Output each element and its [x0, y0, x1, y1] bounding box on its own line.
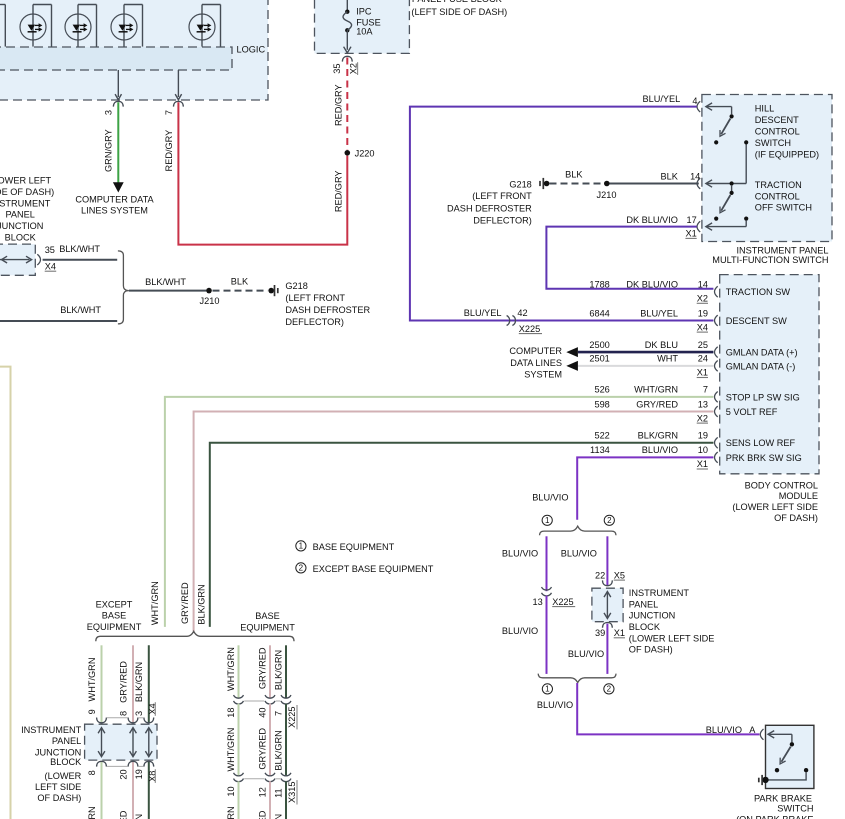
svg-text:39: 39	[595, 628, 605, 638]
svg-text:J220: J220	[355, 148, 375, 158]
svg-text:2500: 2500	[589, 340, 609, 350]
svg-text:X1: X1	[697, 459, 708, 469]
svg-text:DEFLECTOR): DEFLECTOR)	[285, 317, 344, 327]
svg-text:(LEFT SIDE OF DASH): (LEFT SIDE OF DASH)	[411, 7, 507, 17]
svg-text:WHT/GRN: WHT/GRN	[226, 647, 236, 691]
svg-text:INSTRUMENT: INSTRUMENT	[0, 198, 51, 208]
svg-text:8: 8	[118, 711, 128, 716]
svg-text:14: 14	[690, 171, 700, 181]
svg-text:(LOWER: (LOWER	[45, 771, 82, 781]
svg-text:TRACTION SW: TRACTION SW	[726, 287, 791, 297]
svg-text:GRY/RED: GRY/RED	[636, 399, 678, 409]
svg-text:WHT/GRN: WHT/GRN	[150, 581, 160, 625]
svg-text:13: 13	[698, 399, 708, 409]
svg-text:X2: X2	[697, 413, 708, 423]
svg-text:G218: G218	[285, 281, 307, 291]
svg-text:PANEL: PANEL	[5, 210, 34, 220]
svg-text:GRY/RED: GRY/RED	[118, 810, 128, 819]
svg-text:4: 4	[692, 96, 697, 106]
svg-text:12: 12	[258, 787, 268, 797]
svg-text:HILL: HILL	[755, 104, 774, 114]
svg-text:BLK/WHT: BLK/WHT	[59, 244, 100, 254]
svg-text:(LOWER LEFT: (LOWER LEFT	[0, 176, 51, 186]
svg-text:(ON PARK BRAKE: (ON PARK BRAKE	[736, 814, 813, 819]
svg-text:1: 1	[299, 542, 304, 551]
svg-text:BLU/VIO: BLU/VIO	[706, 725, 742, 735]
svg-text:BLOCK: BLOCK	[5, 233, 37, 243]
svg-text:40: 40	[258, 707, 268, 717]
svg-text:PANEL FUSE BLOCK: PANEL FUSE BLOCK	[412, 0, 503, 4]
svg-text:MODULE: MODULE	[779, 491, 818, 501]
svg-text:X8: X8	[148, 771, 158, 782]
svg-text:WHT/GRN: WHT/GRN	[87, 806, 97, 819]
svg-text:1: 1	[545, 685, 550, 694]
svg-text:TRACTION: TRACTION	[755, 180, 802, 190]
svg-text:BLK: BLK	[565, 170, 583, 180]
svg-text:OF DASH): OF DASH)	[629, 645, 673, 655]
svg-text:BLOCK: BLOCK	[629, 622, 661, 632]
svg-text:PANEL: PANEL	[52, 736, 81, 746]
svg-text:BLK: BLK	[661, 171, 679, 181]
svg-text:BASE: BASE	[255, 611, 280, 621]
svg-text:DESCENT SW: DESCENT SW	[726, 316, 787, 326]
svg-text:24: 24	[698, 354, 708, 364]
svg-text:GRY/RED: GRY/RED	[258, 810, 268, 819]
svg-text:7: 7	[273, 711, 283, 716]
svg-text:2: 2	[607, 516, 612, 525]
svg-text:JUNCTION: JUNCTION	[0, 221, 43, 231]
svg-text:SYSTEM: SYSTEM	[524, 369, 562, 379]
svg-text:BLU/YEL: BLU/YEL	[640, 308, 678, 318]
svg-text:EXCEPT: EXCEPT	[96, 599, 133, 609]
svg-text:GRY/RED: GRY/RED	[118, 661, 128, 703]
svg-text:EXCEPT BASE EQUIPMENT: EXCEPT BASE EQUIPMENT	[313, 564, 434, 574]
svg-text:X1: X1	[697, 368, 708, 378]
svg-text:SIDE OF DASH): SIDE OF DASH)	[0, 187, 54, 197]
svg-text:5 VOLT REF: 5 VOLT REF	[726, 407, 778, 417]
svg-text:BLU/VIO: BLU/VIO	[502, 626, 538, 636]
svg-text:SWITCH: SWITCH	[777, 803, 813, 813]
svg-text:GRN/GRY: GRN/GRY	[104, 129, 114, 172]
svg-text:11: 11	[273, 788, 283, 798]
svg-text:OF DASH): OF DASH)	[37, 793, 81, 803]
svg-text:BLU/VIO: BLU/VIO	[568, 649, 604, 659]
svg-text:X225: X225	[287, 706, 297, 727]
svg-text:X4: X4	[45, 261, 56, 271]
svg-text:BLK/GRN: BLK/GRN	[638, 431, 678, 441]
svg-text:2501: 2501	[589, 354, 609, 364]
svg-text:9: 9	[87, 709, 97, 714]
svg-text:(LOWER LEFT SIDE: (LOWER LEFT SIDE	[732, 502, 818, 512]
svg-text:19: 19	[698, 431, 708, 441]
svg-text:WHT: WHT	[657, 354, 678, 364]
svg-text:PANEL: PANEL	[629, 599, 658, 609]
svg-text:42: 42	[517, 308, 527, 318]
svg-text:JUNCTION: JUNCTION	[35, 747, 81, 757]
svg-text:X2: X2	[348, 63, 358, 74]
svg-text:CONTROL: CONTROL	[755, 191, 800, 201]
svg-text:BASE EQUIPMENT: BASE EQUIPMENT	[313, 542, 395, 552]
svg-text:14: 14	[698, 280, 708, 290]
svg-text:(LOWER LEFT SIDE: (LOWER LEFT SIDE	[629, 633, 715, 643]
svg-text:DASH DEFROSTER: DASH DEFROSTER	[447, 203, 532, 213]
svg-text:BLOCK: BLOCK	[50, 757, 82, 767]
svg-text:BLU/VIO: BLU/VIO	[502, 548, 538, 558]
svg-text:INSTRUMENT: INSTRUMENT	[629, 588, 690, 598]
svg-text:BASE: BASE	[102, 611, 127, 621]
svg-text:1134: 1134	[590, 445, 610, 455]
svg-text:X1: X1	[685, 229, 696, 239]
svg-text:(LEFT FRONT: (LEFT FRONT	[285, 293, 345, 303]
svg-text:X4: X4	[148, 703, 158, 714]
svg-text:X2: X2	[697, 294, 708, 304]
svg-text:35: 35	[332, 63, 342, 73]
svg-text:13: 13	[532, 597, 542, 607]
svg-text:J210: J210	[200, 296, 220, 306]
svg-text:10A: 10A	[356, 27, 373, 37]
svg-text:INSTRUMENT: INSTRUMENT	[21, 725, 82, 735]
svg-text:X5: X5	[614, 570, 625, 580]
svg-text:EQUIPMENT: EQUIPMENT	[240, 622, 295, 632]
svg-text:598: 598	[594, 399, 609, 409]
svg-text:X225: X225	[519, 324, 540, 334]
svg-text:7: 7	[164, 110, 174, 115]
svg-text:7: 7	[703, 385, 708, 395]
svg-text:BLK/GRN: BLK/GRN	[273, 650, 283, 690]
svg-text:BLK/GRN: BLK/GRN	[273, 814, 283, 819]
svg-text:WHT/GRN: WHT/GRN	[87, 658, 97, 702]
svg-text:35: 35	[45, 245, 55, 255]
svg-text:X1: X1	[614, 628, 625, 638]
svg-text:BLK/GRN: BLK/GRN	[134, 814, 144, 819]
svg-text:3: 3	[104, 110, 114, 115]
svg-text:IPC: IPC	[356, 7, 372, 17]
svg-text:RED/GRY: RED/GRY	[334, 84, 344, 126]
svg-text:SWITCH: SWITCH	[755, 138, 791, 148]
svg-text:BLU/YEL: BLU/YEL	[464, 308, 502, 318]
svg-text:DESCENT: DESCENT	[755, 115, 799, 125]
svg-text:X225: X225	[552, 597, 573, 607]
svg-text:OFF SWITCH: OFF SWITCH	[755, 203, 812, 213]
svg-text:BLK/GRN: BLK/GRN	[134, 662, 144, 702]
svg-text:J210: J210	[597, 190, 617, 200]
svg-text:RED/GRY: RED/GRY	[334, 170, 344, 212]
svg-text:CONTROL: CONTROL	[755, 127, 800, 137]
svg-text:WHT/GRN: WHT/GRN	[226, 806, 236, 819]
svg-text:LINES SYSTEM: LINES SYSTEM	[81, 206, 148, 216]
svg-text:COMPUTER DATA: COMPUTER DATA	[75, 194, 154, 204]
svg-text:INSTRUMENT PANEL: INSTRUMENT PANEL	[736, 245, 828, 255]
svg-text:X4: X4	[697, 322, 708, 332]
svg-text:BODY CONTROL: BODY CONTROL	[745, 480, 818, 490]
svg-text:GRY/RED: GRY/RED	[258, 647, 268, 689]
svg-text:3: 3	[134, 711, 144, 716]
svg-text:X315: X315	[287, 782, 297, 803]
svg-text:526: 526	[594, 385, 609, 395]
svg-text:19: 19	[134, 769, 144, 779]
svg-text:JUNCTION: JUNCTION	[629, 611, 675, 621]
svg-text:2: 2	[299, 564, 304, 573]
svg-text:LEFT SIDE: LEFT SIDE	[35, 782, 81, 792]
svg-text:BLK/WHT: BLK/WHT	[145, 277, 186, 287]
svg-text:GMLAN DATA (-): GMLAN DATA (-)	[726, 361, 796, 371]
svg-text:PARK BRAKE: PARK BRAKE	[754, 793, 812, 803]
svg-text:20: 20	[118, 769, 128, 779]
svg-text:DEFLECTOR): DEFLECTOR)	[473, 215, 532, 225]
svg-text:18: 18	[226, 707, 236, 717]
svg-text:LOGIC: LOGIC	[237, 45, 266, 55]
svg-text:BLK/WHT: BLK/WHT	[60, 305, 101, 315]
svg-text:COMPUTER: COMPUTER	[509, 346, 562, 356]
svg-text:2: 2	[607, 685, 612, 694]
svg-text:17: 17	[686, 215, 696, 225]
svg-text:EQUIPMENT: EQUIPMENT	[87, 622, 142, 632]
svg-text:GRY/RED: GRY/RED	[180, 582, 190, 624]
svg-text:OF DASH): OF DASH)	[774, 513, 818, 523]
svg-text:DATA LINES: DATA LINES	[510, 358, 562, 368]
svg-text:PRK BRK SW SIG: PRK BRK SW SIG	[726, 453, 802, 463]
svg-text:BLU/VIO: BLU/VIO	[642, 445, 678, 455]
svg-text:SENS LOW REF: SENS LOW REF	[726, 438, 796, 448]
svg-text:GRY/RED: GRY/RED	[258, 728, 268, 770]
svg-text:22: 22	[595, 570, 605, 580]
svg-text:(IF EQUIPPED): (IF EQUIPPED)	[755, 149, 819, 159]
svg-text:DK BLU/VIO: DK BLU/VIO	[626, 280, 678, 290]
svg-text:DK BLU/VIO: DK BLU/VIO	[626, 215, 678, 225]
svg-text:A: A	[749, 725, 756, 735]
svg-text:BLU/YEL: BLU/YEL	[643, 94, 681, 104]
svg-text:WHT/GRN: WHT/GRN	[226, 728, 236, 772]
svg-text:G218: G218	[509, 179, 531, 189]
svg-text:STOP LP SW SIG: STOP LP SW SIG	[726, 392, 800, 402]
svg-text:BLU/VIO: BLU/VIO	[532, 492, 568, 502]
svg-text:MULTI-FUNCTION SWITCH: MULTI-FUNCTION SWITCH	[712, 255, 828, 265]
svg-text:BLK: BLK	[231, 276, 249, 286]
svg-text:(LEFT FRONT: (LEFT FRONT	[472, 191, 532, 201]
svg-text:BLU/VIO: BLU/VIO	[561, 548, 597, 558]
svg-text:10: 10	[226, 786, 236, 796]
svg-text:6844: 6844	[589, 308, 609, 318]
svg-text:GMLAN DATA (+): GMLAN DATA (+)	[726, 348, 798, 358]
svg-text:BLK/GRN: BLK/GRN	[196, 584, 206, 624]
svg-text:BLK/GRN: BLK/GRN	[273, 730, 283, 770]
svg-text:522: 522	[594, 431, 609, 441]
svg-text:8: 8	[87, 770, 97, 775]
svg-text:19: 19	[698, 308, 708, 318]
svg-text:DK BLU: DK BLU	[645, 340, 678, 350]
svg-text:25: 25	[698, 340, 708, 350]
svg-text:1788: 1788	[589, 280, 609, 290]
svg-text:1: 1	[545, 516, 550, 525]
svg-text:10: 10	[698, 445, 708, 455]
svg-text:RED/GRY: RED/GRY	[164, 130, 174, 172]
svg-text:DASH DEFROSTER: DASH DEFROSTER	[285, 305, 370, 315]
svg-text:BLU/VIO: BLU/VIO	[537, 700, 573, 710]
svg-text:WHT/GRN: WHT/GRN	[634, 385, 678, 395]
